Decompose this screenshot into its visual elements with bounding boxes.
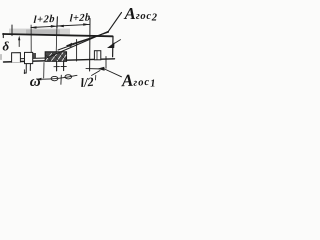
svg-text:δ: δ	[3, 39, 10, 54]
svg-text:l+2b: l+2b	[69, 12, 90, 24]
tick at x=44 from block corner	[43, 63, 45, 79]
support rect 1	[12, 53, 21, 63]
mid tick bottom	[60, 75, 62, 84]
dimension line 2 (l+2b)	[58, 24, 90, 26]
svg-text:Aгос1: Aгос1	[120, 70, 155, 92]
svg-text:ω: ω	[30, 74, 41, 90]
bottom dimension line	[37, 75, 78, 79]
loops on bottom line	[51, 76, 58, 80]
legs under rect2	[24, 64, 26, 73]
extension line A	[30, 25, 32, 53]
svg-text:l/2: l/2	[80, 75, 95, 90]
tick V1 above main line left	[11, 25, 13, 36]
left end hook of main line	[2, 34, 4, 38]
right small square	[94, 51, 100, 60]
extension line B (mid tick)	[56, 17, 59, 28]
scan smudge band between dim line and main line	[9, 29, 70, 35]
leader fan to Agos2	[48, 32, 109, 58]
base line	[4, 59, 115, 62]
thin vertical support x=76.5	[76, 40, 78, 62]
smudge near rect2	[33, 53, 36, 58]
feet under hatched block	[56, 62, 58, 71]
extension line C (right)	[89, 19, 91, 72]
dimension line 1 (l+2b)	[31, 26, 57, 27]
rail line between supports	[19, 57, 46, 60]
Agos1 leader	[86, 68, 105, 70]
arrow at right element corner	[114, 40, 121, 44]
left margin smudge	[0, 55, 2, 60]
svg-text:Aгос2: Aгос2	[124, 4, 158, 24]
support rect 2	[25, 52, 33, 63]
main plate line	[3, 34, 113, 36]
right element edge vertical	[112, 36, 114, 57]
hatched block	[45, 52, 66, 62]
vertical under base at right	[105, 57, 107, 69]
svg-text:l+2b: l+2b	[33, 14, 55, 26]
diag after l/2	[92, 71, 101, 76]
delta arrow under plate	[18, 38, 20, 47]
